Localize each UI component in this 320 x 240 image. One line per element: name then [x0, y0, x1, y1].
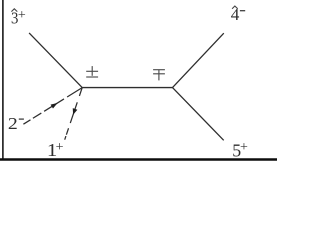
superscript minus of label 4 [240, 10, 245, 12]
svg-text:+: + [18, 8, 26, 23]
wire leg 3 (solid, upper-left external line) [29, 33, 82, 88]
wire leg 5 (solid, lower-right external line) [173, 88, 224, 141]
arrowhead on leg 2 (points toward left vertex) [51, 103, 58, 109]
frame left border [2, 0, 4, 160]
frame bottom border [0, 158, 277, 160]
dashed leg 1 (lower external line, drawn as dash segments) [65, 88, 83, 140]
minus-plus sign at right vertex [153, 70, 165, 81]
svg-text:+: + [56, 140, 64, 155]
hat accent over 4 [232, 6, 238, 9]
dashed leg 2 (lower-left external line, drawn as dash segments) [23, 88, 82, 125]
hat accent over 3 [11, 9, 17, 12]
plus-minus sign at left vertex [86, 66, 98, 77]
arrowhead on leg 1 (points away from left vertex) [73, 108, 78, 115]
svg-text:2: 2 [8, 114, 18, 133]
wire internal propagator (horizontal line between vertices) [82, 87, 172, 89]
svg-text:+: + [240, 140, 248, 155]
wire leg 4 (solid, upper-right external line) [173, 33, 224, 87]
superscript minus of label 2 [19, 118, 24, 120]
